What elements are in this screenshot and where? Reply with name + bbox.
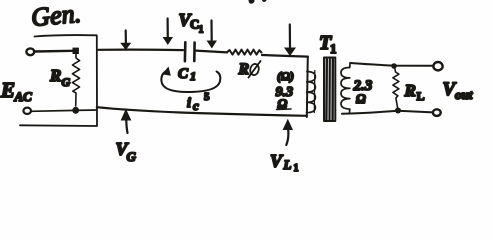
label Gen.: [30, 0, 82, 32]
inductor L1 (transformer primary): [307, 71, 316, 113]
label R_L: [404, 81, 425, 103]
capacitor C1: [185, 42, 195, 61]
junction (R_G top): [73, 48, 79, 54]
label primary impedance (Ω) 9.3 Ω: [276, 69, 294, 111]
svg-text:G: G: [62, 75, 71, 89]
wire (secondary top): [350, 63, 433, 66]
wire (bottom terminal to box edge): [31, 110, 97, 111]
current arrow (left of C1): [163, 19, 173, 46]
svg-text:L: L: [417, 89, 425, 103]
label V_G: [116, 139, 137, 164]
svg-text:R: R: [404, 81, 416, 100]
terminal bottom-left: [23, 108, 31, 114]
svg-text:1: 1: [330, 41, 337, 56]
svg-text:out: out: [455, 87, 473, 102]
current arrow at x=126: [120, 31, 131, 51]
svg-text:G: G: [127, 149, 137, 164]
label T1: [319, 32, 337, 56]
wire (primary vertical): [307, 57, 308, 117]
label i_c: [187, 91, 210, 113]
resistor R_L: [393, 67, 399, 108]
wire (C1 to R_s): [196, 51, 227, 53]
label R_s: [238, 61, 261, 78]
stray ink marks (top edge): [249, 0, 267, 4]
wire (top main: box to C1): [99, 49, 184, 52]
svg-text:(Ω): (Ω): [277, 69, 294, 83]
junction (R_L bottom): [395, 108, 401, 114]
label V_L1: [270, 151, 299, 174]
svg-text:Ω: Ω: [356, 91, 366, 106]
junction (R_L top): [391, 63, 397, 69]
transformer core: [324, 58, 335, 122]
generator box: [20, 35, 97, 126]
svg-text:1: 1: [190, 69, 196, 83]
svg-text:Gen.: Gen.: [30, 0, 82, 32]
wire (bottom main): [97, 107, 307, 116]
loop arrow (current direction i_c): [161, 67, 220, 93]
junction (R_G bottom): [72, 107, 79, 114]
label secondary impedance 2.3 Ω: [353, 78, 373, 106]
label E_AC: [0, 78, 32, 104]
svg-text:5: 5: [204, 91, 210, 103]
voltage arrow V_L1: [283, 119, 293, 145]
current arrow (right of C1): [207, 21, 217, 49]
current arrow (right of R_s): [284, 25, 296, 57]
svg-text:L: L: [283, 157, 292, 172]
inductor secondary: [341, 63, 350, 114]
svg-text:c: c: [193, 98, 199, 113]
svg-text:V: V: [270, 151, 284, 171]
svg-text:R: R: [238, 61, 250, 78]
label V_out: [443, 79, 473, 102]
voltage arrow V_G: [121, 109, 132, 133]
label C1 (script): [178, 66, 196, 83]
resistor R_G: [72, 54, 79, 107]
label V_C1: [179, 10, 204, 36]
wire (R_s to primary corner): [262, 55, 308, 57]
label R_G: [49, 66, 71, 89]
svg-text:C: C: [178, 66, 189, 82]
svg-text:1: 1: [294, 163, 299, 174]
terminal output top: [433, 62, 442, 70]
terminal top-left: [26, 48, 34, 55]
svg-text:i: i: [187, 96, 191, 111]
svg-text:AC: AC: [14, 89, 33, 104]
svg-text:R: R: [49, 66, 61, 85]
wire (top terminal to R_G junction): [35, 50, 73, 53]
svg-text:E: E: [0, 78, 15, 102]
svg-text:1: 1: [199, 25, 204, 36]
wire (secondary bottom): [342, 111, 433, 114]
resistor R_s: [227, 50, 262, 55]
terminal output bottom: [433, 109, 441, 116]
